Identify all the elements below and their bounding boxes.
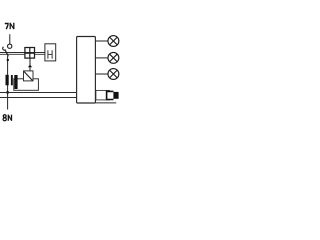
node label 7N — [5, 23, 14, 29]
wire to lamp E2 — [95, 57, 108, 59]
socket X2 plug black — [113, 92, 118, 99]
wire bottom edge extension — [95, 102, 116, 104]
wire vertical to 8N — [7, 56, 9, 110]
wire to lamp E3 — [95, 73, 108, 75]
device box H — [45, 44, 56, 61]
label H — [48, 50, 52, 59]
arrowhead up — [28, 65, 32, 68]
switch S1 blade — [5, 49, 9, 56]
transformer bar T1a — [6, 75, 9, 86]
lamp E2 — [108, 52, 119, 63]
lamp E3 — [108, 69, 119, 80]
switch S1 terminal — [8, 44, 12, 48]
relay box K2 diagonal — [24, 72, 32, 81]
relay box K2 with diagonal — [24, 71, 34, 81]
meter box X1 center line — [29, 48, 31, 59]
junction dot A — [7, 59, 9, 61]
transformer bar T1b — [11, 75, 13, 85]
meter box X1 — [25, 48, 35, 59]
upper bus wire L2 — [0, 53, 45, 55]
node label 8N — [3, 115, 11, 121]
switch S1 blade hook — [3, 47, 6, 50]
socket X2 outer box — [96, 90, 109, 100]
meter box X1 crossbar — [25, 52, 35, 54]
lamp E1 — [108, 36, 119, 47]
lower bus wire N1 — [0, 92, 77, 94]
upper bus wire L1 — [0, 52, 45, 54]
lower bus wire N2 — [0, 97, 77, 99]
distribution box U1 — [77, 37, 96, 104]
wire 7N stub — [9, 34, 11, 44]
socket X2 bracket — [107, 91, 114, 99]
wire arrow link — [29, 58, 31, 71]
device box K1 black bar — [14, 75, 17, 89]
junction dot B — [6, 91, 9, 94]
wire to lamp E1 — [95, 40, 108, 42]
device box K1 — [14, 79, 39, 91]
